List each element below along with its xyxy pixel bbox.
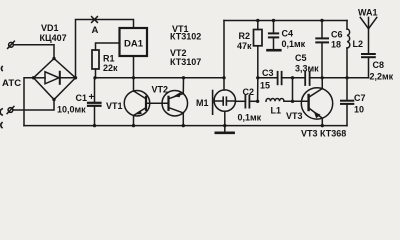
node C6 top rail junction bbox=[320, 19, 323, 22]
node C2/L1/R2 junction bbox=[256, 100, 259, 103]
breaker X (contact А) bbox=[92, 17, 98, 23]
svg-text:2,2мк: 2,2мк bbox=[370, 72, 394, 82]
wire terminal a to bridge top bbox=[13, 45, 54, 59]
wire oscillator tank rail bbox=[258, 77, 278, 79]
label VT1 КТ3102 VT2 КТ3107 bbox=[170, 24, 201, 67]
wire M1 feed riser bbox=[223, 21, 225, 91]
svg-text:С4: С4 bbox=[282, 29, 294, 39]
node rail to M1 feed junction bbox=[222, 76, 225, 79]
label С3 15 bbox=[260, 68, 274, 91]
label С2 0,1мк bbox=[238, 87, 262, 123]
svg-text:15: 15 bbox=[260, 81, 270, 91]
terminal X2 (line b) bbox=[7, 106, 14, 113]
transistor VT3 bbox=[301, 88, 332, 119]
node C4 top rail junction bbox=[272, 19, 275, 22]
svg-text:+: + bbox=[89, 92, 95, 103]
wire VT1 base to VT2 base bbox=[146, 102, 169, 104]
node M1 ground junction bbox=[223, 124, 226, 127]
wire VT2 emitter to rail bbox=[182, 78, 184, 94]
node bridge bottom vertex bbox=[52, 98, 55, 101]
microphone M1 bbox=[213, 90, 236, 114]
node R1/C1 junction bbox=[93, 76, 96, 79]
wire VT1 emitter to ground rail bbox=[133, 116, 135, 126]
svg-text:18: 18 bbox=[331, 40, 341, 50]
svg-text:R1: R1 bbox=[103, 54, 115, 64]
wire VT3 collector to tank bbox=[321, 78, 323, 89]
svg-text:С7: С7 bbox=[354, 93, 366, 103]
wire main supply rail bbox=[95, 77, 224, 79]
svg-text:С6: С6 bbox=[331, 30, 343, 40]
svg-text:R2: R2 bbox=[239, 31, 251, 41]
capacitor C8 bbox=[347, 54, 375, 78]
wire bridge left vertex to bottom rail bbox=[24, 78, 34, 126]
node L2/C7 junction bbox=[345, 76, 348, 79]
capacitor C3 bbox=[278, 72, 282, 85]
node VT2 bottom rail junction bbox=[182, 124, 185, 127]
wire top supply rail bbox=[224, 20, 347, 22]
svg-text:L1: L1 bbox=[271, 106, 282, 116]
svg-text:VD1: VD1 bbox=[41, 23, 59, 33]
capacitor C6 bbox=[316, 21, 328, 78]
svg-text:КТ3107: КТ3107 bbox=[170, 57, 201, 67]
transistor VT2 bbox=[162, 90, 188, 116]
svg-text:VT3: VT3 bbox=[286, 111, 303, 121]
svg-text:0,1мк: 0,1мк bbox=[282, 39, 306, 49]
terminal X1 (line a) bbox=[8, 41, 15, 48]
capacitor C5 bbox=[305, 72, 309, 85]
node C1 bottom rail junction bbox=[93, 124, 96, 127]
label С7 10 bbox=[354, 93, 366, 115]
wire L1 to VT3 base bbox=[284, 100, 309, 102]
wire C3 to C5 bbox=[282, 77, 306, 79]
wire M1 output to C2 bbox=[236, 100, 246, 102]
svg-text:VT3 КТ368: VT3 КТ368 bbox=[301, 129, 346, 139]
inductor L1 bbox=[266, 99, 284, 102]
label R1 22к bbox=[103, 54, 118, 74]
wire DA1 output down to supply rail bbox=[133, 56, 135, 78]
wire branch down to VT3 base node bbox=[292, 78, 294, 102]
svg-text:С8: С8 bbox=[373, 60, 385, 70]
label С6 18 bbox=[331, 30, 343, 50]
antenna WA1 bbox=[360, 17, 377, 53]
label С8 2,2мк bbox=[370, 60, 394, 82]
svg-text:С3: С3 bbox=[262, 68, 274, 78]
svg-text:А: А bbox=[92, 25, 99, 36]
label С5 3,3мк bbox=[295, 53, 319, 74]
label VD1 КЦ407 bbox=[40, 23, 67, 43]
wire R2 node down to C2 node bbox=[257, 78, 259, 102]
svg-text:С2: С2 bbox=[243, 87, 255, 97]
node VT3 base wire junction bbox=[291, 100, 294, 103]
node VT2 rail junction bbox=[182, 76, 185, 79]
wire VT3 emitter to ground rail bbox=[321, 118, 323, 125]
svg-text:47к: 47к bbox=[237, 41, 252, 51]
ground bbox=[216, 126, 234, 133]
svg-text:0,1мк: 0,1мк bbox=[238, 113, 262, 123]
label С1 + 10,0мк bbox=[57, 92, 95, 115]
svg-text:22к: 22к bbox=[103, 63, 118, 73]
label R2 47к bbox=[237, 31, 252, 51]
svg-text:М1: М1 bbox=[196, 98, 209, 108]
wire C5 to collector node bbox=[310, 77, 369, 79]
svg-text:DA1: DA1 bbox=[124, 38, 144, 49]
node bridge top vertex bbox=[52, 57, 55, 60]
capacitor C1 electrolytic bbox=[88, 78, 101, 126]
inductor L2 bbox=[347, 21, 350, 78]
voltage regulator DA1 bbox=[120, 28, 148, 56]
transistor VT1 bbox=[124, 90, 150, 116]
svg-text:КЦ407: КЦ407 bbox=[40, 33, 67, 43]
svg-text:10,0мк: 10,0мк bbox=[57, 105, 86, 115]
node bridge left vertex bbox=[32, 76, 35, 79]
label С4 0,1мк bbox=[282, 29, 306, 50]
svg-text:WA1: WA1 bbox=[358, 8, 378, 18]
svg-text:3,3мк: 3,3мк bbox=[295, 64, 319, 74]
wire bottom ground rail bbox=[24, 125, 347, 127]
node DA1 output junction bbox=[132, 76, 135, 79]
node bridge right vertex bbox=[74, 76, 77, 79]
node VT3 emitter rail junction bbox=[321, 124, 324, 127]
wire terminal b to bridge bottom bbox=[13, 100, 54, 111]
resistor R2 bbox=[254, 21, 263, 78]
capacitor C4 bbox=[269, 21, 278, 49]
wire VT1 collector to rail bbox=[133, 78, 135, 91]
ground (C4) bbox=[268, 49, 281, 52]
wire M1 bottom to ground rail bbox=[224, 111, 226, 125]
resistor R1 bbox=[92, 43, 120, 78]
capacitor C7 bbox=[341, 78, 353, 126]
capacitor C2 bbox=[245, 96, 257, 108]
scan edge artifacts bbox=[0, 67, 2, 128]
svg-text:VT1: VT1 bbox=[106, 101, 123, 111]
node VT1 emitter rail junction bbox=[132, 124, 135, 127]
svg-text:L2: L2 bbox=[353, 39, 364, 49]
wire VT2 collector to ground rail bbox=[182, 113, 184, 126]
diode bridge VD1 bbox=[34, 59, 76, 100]
node R2 top rail junction bbox=[256, 19, 259, 22]
wire bridge right vertex up to top-left feed bbox=[76, 20, 134, 78]
node C6/VT3 collector junction bbox=[321, 76, 324, 79]
node R2 bottom junction bbox=[256, 76, 259, 79]
svg-text:С5: С5 bbox=[295, 53, 307, 63]
svg-text:10: 10 bbox=[354, 105, 364, 115]
svg-text:С1: С1 bbox=[76, 93, 88, 103]
svg-text:КТ3102: КТ3102 bbox=[170, 32, 201, 42]
svg-text:VT2: VT2 bbox=[152, 85, 169, 95]
node C3/VT3 base branch junction bbox=[291, 76, 294, 79]
svg-text:АТС: АТС bbox=[2, 78, 21, 89]
